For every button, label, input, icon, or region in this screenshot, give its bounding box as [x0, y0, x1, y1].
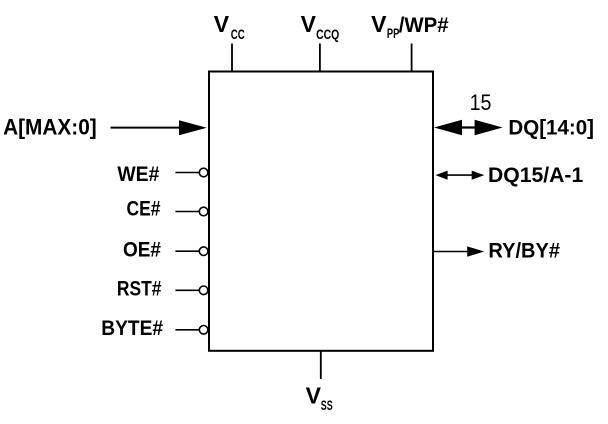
pin label BYTE# [101, 317, 163, 340]
wire A[MAX:0] [111, 127, 181, 129]
wire WE# [175, 172, 199, 174]
svg-text:RST#: RST# [117, 278, 162, 301]
svg-text:15: 15 [470, 90, 492, 115]
pin label OE# [123, 239, 161, 262]
wire BYTE# [175, 329, 199, 331]
svg-text:CC: CC [231, 27, 245, 42]
svg-text:DQ15/A-1: DQ15/A-1 [488, 164, 584, 187]
pin label RST# [117, 278, 162, 301]
pin label VPP/WP# [371, 11, 449, 41]
wire VPP [411, 44, 413, 72]
arrowhead DQ[14:0] right [475, 120, 503, 135]
svg-text:CCQ: CCQ [316, 27, 339, 42]
bus width label 15 [470, 90, 492, 115]
pin label A[MAX:0] [3, 114, 97, 139]
pin label WE# [117, 163, 159, 186]
wire RY/BY# [433, 251, 469, 253]
pin label VSS [306, 383, 333, 413]
svg-text:CE#: CE# [127, 198, 161, 221]
inversion bubble RST# [199, 286, 208, 295]
svg-text:V: V [214, 11, 230, 37]
wire VCC [231, 44, 233, 72]
wire DQ[14:0] [458, 126, 478, 128]
IC body U1 [209, 72, 433, 351]
svg-text:V: V [371, 11, 387, 37]
arrowhead A[MAX:0] input [179, 120, 207, 135]
inversion bubble CE# [199, 207, 208, 216]
arrowhead DQ[14:0] left [434, 120, 462, 135]
arrowhead RY/BY# output [467, 246, 484, 256]
svg-text:RY/BY#: RY/BY# [488, 239, 560, 262]
pin label CE# [127, 198, 161, 221]
pin label DQ[14:0] [508, 116, 594, 139]
wire DQ15/A-1 [445, 174, 474, 176]
wire RST# [175, 289, 199, 291]
wire VCCQ [319, 44, 321, 72]
svg-text:PP: PP [387, 26, 399, 41]
pin label VCC [214, 11, 245, 42]
pin label RY/BY# [488, 239, 560, 262]
svg-text:BYTE#: BYTE# [101, 317, 163, 340]
svg-text:DQ[14:0]: DQ[14:0] [508, 116, 594, 139]
wire OE# [175, 250, 199, 252]
wire VSS [320, 351, 322, 379]
svg-text:V: V [306, 383, 322, 409]
inversion bubble BYTE# [199, 326, 208, 335]
svg-text:A[MAX:0]: A[MAX:0] [3, 114, 97, 139]
wire CE# [175, 211, 199, 213]
svg-text:WE#: WE# [117, 163, 159, 186]
inversion bubble OE# [199, 247, 208, 256]
pin label DQ15/A-1 [488, 164, 584, 187]
arrowhead DQ15/A-1 left [436, 171, 448, 180]
svg-text:V: V [301, 11, 317, 37]
svg-text:/WP#: /WP# [399, 14, 449, 37]
inversion bubble WE# [199, 168, 208, 177]
svg-text:SS: SS [321, 398, 333, 413]
arrowhead DQ15/A-1 right [472, 171, 485, 180]
pin label VCCQ [301, 11, 340, 42]
svg-text:OE#: OE# [123, 239, 161, 262]
